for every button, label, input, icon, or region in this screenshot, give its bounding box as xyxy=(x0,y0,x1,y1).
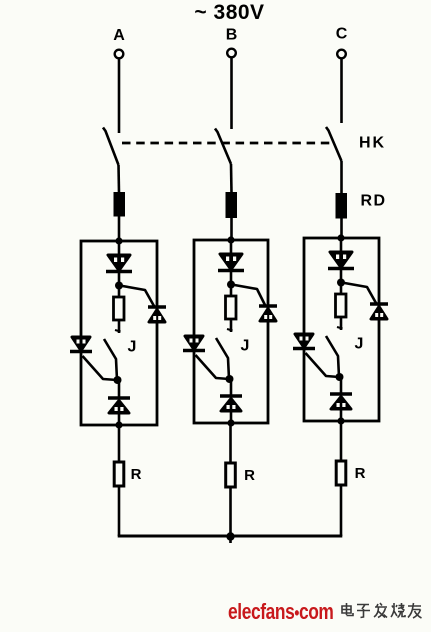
wire: fuse RD-C to module box C xyxy=(340,219,343,239)
node: bottom bus junction (phase B) xyxy=(226,532,234,543)
thyristor VC1 (top, cathode down) xyxy=(328,252,354,269)
thyristor VB2 (left edge, cathode down) xyxy=(183,336,205,351)
wire: junction C1 to gate resistor xyxy=(340,283,343,295)
wire: gate lead VB2 to junction B2 xyxy=(196,355,230,379)
node: junction C2 below contact J xyxy=(336,373,344,381)
node: gate network junction C1 xyxy=(337,279,345,287)
label J (relay contact C) xyxy=(355,336,364,353)
node terminal B xyxy=(227,49,236,58)
module box B (thyristor unit outline) xyxy=(194,240,268,423)
wire: gate resistor to fixed contact of J (B) xyxy=(227,319,233,332)
wire: bottom common bus xyxy=(118,535,343,538)
label R (A) xyxy=(131,466,142,483)
node: gate network junction A1 xyxy=(115,282,123,290)
node terminal C xyxy=(337,50,346,59)
thyristor VA1 (top, cathode down) xyxy=(106,255,132,272)
label R (B) xyxy=(244,467,255,484)
node: box C bottom junction xyxy=(337,417,344,424)
fuse RD phase B xyxy=(226,192,238,218)
wire: terminal A down to switch HK xyxy=(118,58,121,133)
resistor (gate) in box B xyxy=(226,296,237,319)
wire: junction A1 to gate resistor xyxy=(118,286,121,298)
switch HK pole C blade xyxy=(326,127,342,161)
wire: HK pole C to fuse RD-C xyxy=(340,161,343,194)
node: junction B2 below contact J xyxy=(226,375,234,383)
wire: diode VDB to box B bottom edge xyxy=(230,411,233,423)
switch HK pole A blade xyxy=(103,128,119,166)
wire: box B top edge to thyristor VB1 anode xyxy=(230,240,233,255)
wire: gate lead VC2 to junction C2 xyxy=(306,353,340,377)
label phase C xyxy=(336,26,348,43)
thyristor VC3 (right edge, cathode up) xyxy=(370,304,388,319)
svg-text:B: B xyxy=(226,27,238,44)
thyristor VC2 (left edge, cathode down) xyxy=(293,334,315,349)
wire: box A bottom to resistor R (A) xyxy=(118,425,121,462)
module box A (thyristor unit outline) xyxy=(81,241,157,425)
wire: box A top edge to thyristor VA1 anode xyxy=(118,241,121,256)
label RD xyxy=(361,193,387,210)
wire: gate lead from junction C1 to right thyristor VC3 xyxy=(345,283,377,303)
wire: diode VDC to box C bottom edge xyxy=(340,409,343,421)
diode VDA (bottom, cathode up) xyxy=(108,398,130,413)
svg-text:R: R xyxy=(131,466,142,483)
resistor R (A) xyxy=(114,462,124,486)
wire: box C bottom to resistor R (C) xyxy=(340,421,343,461)
resistor R (C) xyxy=(336,461,346,485)
switch HK pole B blade xyxy=(215,129,231,165)
wire: gate resistor to fixed contact of J (A) xyxy=(115,320,121,333)
node: box B bottom junction xyxy=(227,419,234,426)
node terminal A xyxy=(115,50,124,59)
watermark logo elecfans.com xyxy=(228,600,333,624)
wire: resistor R (B) to bottom bus xyxy=(229,487,232,536)
fuse RD phase C xyxy=(336,193,348,219)
wire: fuse RD-B to module box B xyxy=(230,218,233,240)
label ~380V supply xyxy=(194,1,264,24)
wire: VC1 cathode to gate node xyxy=(340,269,343,284)
wire: gate lead from junction B1 to right thyristor VB3 xyxy=(235,285,266,305)
wire: junction C2 to bottom diode VDC xyxy=(340,377,343,394)
node: box C top junction xyxy=(337,234,344,241)
svg-text:HK: HK xyxy=(359,135,386,152)
node: gate network junction B1 xyxy=(227,281,235,289)
thyristor VB3 (right edge, cathode up) xyxy=(259,306,277,321)
thyristor VA3 (right edge, cathode up) xyxy=(148,307,166,322)
label phase B xyxy=(226,27,238,44)
label R (C) xyxy=(355,465,366,482)
wire: box C top edge to thyristor VC1 anode xyxy=(340,238,343,253)
relay contact J blade (B) xyxy=(216,338,229,379)
svg-text:R: R xyxy=(244,467,255,484)
wire: resistor R (A) to bottom bus xyxy=(118,486,121,536)
resistor (gate) in box A xyxy=(114,297,125,320)
wire: gate lead VA2 to junction A2 xyxy=(83,356,118,380)
wire: junction B1 to gate resistor xyxy=(230,285,233,297)
diode VDB (bottom, cathode up) xyxy=(220,396,242,411)
module box C (thyristor unit outline) xyxy=(304,238,379,421)
wire: gate lead from junction A1 to right thyristor VA3 xyxy=(123,286,155,306)
svg-text:A: A xyxy=(113,27,125,44)
resistor (gate) in box C xyxy=(336,294,347,317)
svg-text:C: C xyxy=(336,26,348,43)
svg-text:J: J xyxy=(128,339,137,356)
wire: HK pole B to fuse RD-B xyxy=(230,164,233,193)
fuse RD phase A xyxy=(114,192,126,217)
svg-text:R: R xyxy=(355,465,366,482)
wire: terminal C down to switch HK xyxy=(340,58,343,123)
svg-text:J: J xyxy=(355,336,364,353)
node: box B top junction xyxy=(227,236,234,243)
wire: HK pole A to fuse RD-A xyxy=(117,165,120,193)
watermark text dian-zi-fa-shao-you (drawn strokes) xyxy=(342,603,422,618)
wire: resistor R (C) to bottom bus xyxy=(340,485,343,536)
svg-text:elecfans•com: elecfans•com xyxy=(228,600,333,624)
wire: terminal B down to switch HK xyxy=(230,57,233,129)
label phase A xyxy=(113,27,125,44)
svg-text:RD: RD xyxy=(361,193,387,210)
resistor R (B) xyxy=(226,463,236,487)
wire: junction B2 to bottom diode VDB xyxy=(230,379,233,396)
svg-text:J: J xyxy=(241,338,250,355)
relay contact J blade (C) xyxy=(326,336,339,377)
wire: junction A2 to bottom diode VDA xyxy=(118,380,121,398)
wire: VB1 cathode to gate node xyxy=(230,271,233,286)
thyristor VB1 (top, cathode down) xyxy=(218,254,244,271)
wire: fuse RD-A to module box A xyxy=(118,217,121,242)
node: junction A2 below contact J xyxy=(114,376,122,384)
relay contact J blade (A) xyxy=(104,339,117,380)
wire: gate resistor to fixed contact of J (C) xyxy=(337,317,343,330)
node: box A top junction xyxy=(115,237,122,244)
wire: diode VDA to box A bottom edge xyxy=(118,413,121,425)
diode VDC (bottom, cathode up) xyxy=(330,394,352,409)
wire: VA1 cathode to gate node xyxy=(118,272,121,287)
label J (relay contact A) xyxy=(128,339,137,356)
node: box A bottom junction xyxy=(115,421,122,428)
wire: box B bottom to resistor R (B) xyxy=(229,423,232,463)
label J (relay contact B) xyxy=(241,338,250,355)
svg-text:~ 380V: ~ 380V xyxy=(194,1,264,24)
thyristor VA2 (left edge, cathode down) xyxy=(70,337,92,352)
switch HK mechanical linkage (dashed) xyxy=(122,142,332,145)
label HK xyxy=(359,135,386,152)
